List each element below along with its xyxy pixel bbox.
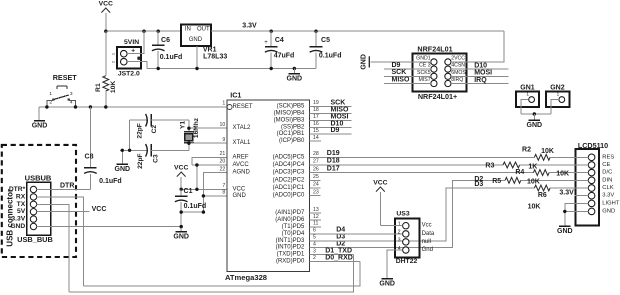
svg-text:DHT22: DHT22	[396, 258, 418, 265]
wire USB GND to C1 ground	[37, 226, 182, 228]
ground (C1)	[173, 225, 189, 241]
svg-text:CLK: CLK	[602, 185, 613, 191]
svg-text:10: 10	[220, 122, 226, 128]
node 3.3V junctions	[270, 30, 318, 33]
svg-text:22pF: 22pF	[137, 154, 144, 169]
svg-text:SCK5: SCK5	[417, 70, 431, 76]
svg-text:10K: 10K	[527, 179, 540, 186]
wire GN common gnd	[521, 112, 551, 120]
wire NRF VCC to 3.3V	[451, 31, 504, 62]
svg-text:ATmega328: ATmega328	[225, 273, 267, 282]
svg-text:0.1uFd: 0.1uFd	[99, 178, 122, 185]
svg-text:1: 1	[526, 92, 529, 97]
svg-text:21: 21	[220, 151, 226, 157]
svg-text:C2: C2	[151, 125, 158, 134]
svg-text:3.3V: 3.3V	[559, 190, 574, 197]
capacitor C1 0.1uFd	[175, 188, 206, 232]
svg-text:22: 22	[220, 166, 226, 172]
wire regulator ground rail	[147, 68, 316, 70]
svg-text:(ADC4)PC4: (ADC4)PC4	[273, 162, 305, 168]
wire net SCK (NRF)	[384, 69, 431, 76]
svg-text:D1_TXD: D1_TXD	[325, 247, 352, 254]
wire stub pin13	[310, 212, 322, 214]
IC1 right pin names	[273, 104, 305, 265]
wire LCD LIGHT/GND to ground	[563, 203, 588, 225]
wire stub pin14	[310, 140, 322, 142]
svg-text:IN: IN	[185, 26, 191, 32]
svg-text:VCC: VCC	[92, 206, 107, 213]
wire JST pin1 to VCC rail	[127, 31, 144, 54]
wire C2 left rail	[128, 120, 131, 152]
svg-text:VCC: VCC	[99, 1, 113, 8]
wire net 3.3V (LCD)	[559, 190, 588, 197]
svg-text:(ADC0)PC0: (ADC0)PC0	[273, 193, 305, 199]
node VCC/R1 junction	[104, 30, 160, 33]
ground (reset switch)	[32, 107, 48, 130]
svg-text:GND: GND	[10, 223, 25, 230]
svg-text:27: 27	[313, 159, 319, 165]
svg-text:RX: RX	[16, 193, 26, 200]
svg-text:3: 3	[313, 248, 316, 254]
svg-text:MOSI: MOSI	[474, 70, 492, 77]
svg-text:D/C: D/C	[602, 170, 612, 176]
svg-text:3.3V: 3.3V	[11, 216, 25, 223]
svg-text:(T1)PD5: (T1)PD5	[282, 224, 305, 230]
svg-text:(ADC5)PC5: (ADC5)PC5	[273, 154, 305, 160]
wire DTR net	[37, 183, 91, 190]
wire 3.3V rail	[211, 23, 504, 32]
svg-text:GND: GND	[173, 234, 189, 241]
capacitor C2 22pF	[130, 114, 189, 139]
svg-text:13: 13	[313, 207, 319, 213]
svg-text:1K: 1K	[528, 164, 537, 171]
wire VR1 GND to rail	[196, 46, 198, 68]
wire XTAL1	[187, 142, 227, 145]
svg-text:(OC1)PB1: (OC1)PB1	[277, 131, 305, 137]
svg-text:IRQ: IRQ	[474, 77, 487, 84]
node gnd rail junctions	[157, 67, 296, 70]
svg-text:D3: D3	[336, 234, 345, 241]
svg-text:GND: GND	[557, 228, 573, 235]
svg-text:D9: D9	[392, 62, 401, 69]
wire RXD bus return	[83, 262, 360, 287]
svg-text:0.1uFd: 0.1uFd	[160, 54, 183, 61]
svg-text:TX: TX	[17, 201, 26, 208]
wire net MISO (NRF)	[384, 76, 431, 83]
svg-text:19: 19	[313, 100, 319, 106]
svg-text:D0_RXD: D0_RXD	[325, 254, 353, 261]
wire net D10	[310, 120, 352, 127]
svg-text:XTAL1: XTAL1	[233, 140, 252, 146]
svg-text:(TXD)PD1: (TXD)PD1	[277, 252, 305, 258]
svg-text:(MOSI)PB3: (MOSI)PB3	[274, 117, 305, 123]
svg-text:AVCC: AVCC	[233, 162, 250, 168]
wire stub pin25	[310, 179, 321, 181]
svg-text:14: 14	[313, 135, 319, 141]
svg-text:4: 4	[313, 241, 316, 247]
svg-text:18: 18	[313, 107, 319, 113]
svg-text:0.1uFd: 0.1uFd	[319, 53, 342, 60]
svg-text:US3: US3	[396, 210, 409, 217]
svg-text:5: 5	[313, 235, 316, 241]
svg-text:9: 9	[222, 137, 225, 143]
svg-text:C5: C5	[321, 37, 330, 44]
svg-text:23: 23	[313, 189, 319, 195]
svg-text:VCC: VCC	[233, 186, 246, 192]
svg-text:16Mhz: 16Mhz	[193, 117, 200, 138]
svg-text:null: null	[422, 239, 431, 245]
power VCC (DHT22)	[373, 180, 402, 226]
wire stub pin12	[310, 219, 322, 221]
wire net D4	[310, 227, 403, 234]
svg-text:16: 16	[313, 121, 319, 127]
svg-text:VCC: VCC	[373, 180, 387, 187]
wire net IRQ (NRF)	[451, 77, 509, 84]
svg-text:JST2.0: JST2.0	[118, 70, 140, 77]
svg-text:4: 4	[398, 246, 401, 252]
wire GND pin8	[202, 194, 227, 197]
svg-text:AREF: AREF	[233, 154, 249, 160]
svg-text:GND: GND	[115, 166, 131, 173]
svg-text:RES: RES	[602, 154, 614, 160]
resistor R2 10K + wire net D19	[310, 147, 589, 161]
wire net MOSI (NRF)	[451, 70, 509, 77]
wire RX to RXD bus	[37, 197, 84, 286]
svg-text:D19: D19	[327, 150, 340, 157]
svg-text:6MOSI: 6MOSI	[451, 70, 467, 76]
wire net MOSI	[310, 113, 352, 120]
svg-text:(MISO)PB4: (MISO)PB4	[274, 110, 305, 116]
svg-text:GN2: GN2	[550, 84, 565, 91]
svg-text:0.1uFd: 0.1uFd	[184, 203, 207, 210]
ground (DHT22)	[379, 279, 395, 288]
svg-text:+: +	[264, 40, 268, 46]
svg-text:D9: D9	[331, 127, 340, 134]
wire net D10 (NRF CSN)	[451, 62, 509, 69]
ground (C4/C5 rail)	[287, 69, 303, 83]
IC1 right pin numbers	[313, 100, 319, 261]
svg-text:R2: R2	[522, 147, 531, 154]
wire NRF GND pin1	[371, 61, 431, 63]
svg-text:2VCC: 2VCC	[451, 55, 465, 61]
svg-text:24: 24	[313, 182, 319, 188]
wire VCC to pin7	[180, 188, 228, 191]
svg-text:Data: Data	[422, 231, 435, 237]
svg-text:R5: R5	[492, 178, 501, 185]
svg-text:(ADC1)PC1: (ADC1)PC1	[273, 185, 305, 191]
svg-text:26: 26	[313, 166, 319, 172]
svg-text:GND: GND	[233, 193, 247, 199]
svg-text:VCC: VCC	[174, 165, 188, 172]
svg-text:22pF: 22pF	[137, 123, 144, 138]
IC1 left pin names	[220, 101, 253, 199]
svg-text:D17: D17	[327, 165, 340, 172]
connector GN1	[516, 84, 539, 114]
pin circle RESET (pin 1)	[227, 105, 232, 110]
svg-text:Y1: Y1	[180, 121, 187, 129]
svg-text:2: 2	[398, 230, 401, 236]
svg-text:C6: C6	[161, 37, 170, 44]
capacitor C5 0.1uFd	[310, 31, 342, 68]
svg-text:15: 15	[313, 128, 319, 134]
connector USB_BUB USBUB	[9, 173, 53, 244]
svg-text:C8: C8	[85, 154, 94, 161]
svg-text:CE: CE	[602, 162, 610, 168]
svg-text:RESET: RESET	[53, 73, 78, 82]
svg-text:GND: GND	[602, 208, 615, 214]
svg-text:5V: 5V	[17, 208, 26, 215]
svg-text:Vcc: Vcc	[422, 223, 432, 229]
wire net MISO	[310, 106, 352, 113]
resistor R5 10K + wire net D2	[310, 176, 589, 248]
svg-text:GN1: GN1	[520, 84, 535, 91]
svg-text:MIS7: MIS7	[418, 77, 430, 83]
svg-text:(ICP)PB0: (ICP)PB0	[279, 138, 305, 144]
wire net D1_TXD	[310, 247, 354, 254]
wire TX to TXD bus	[37, 204, 69, 292]
capacitor C8 0.1uFd	[84, 107, 122, 190]
svg-text:3.3V: 3.3V	[242, 23, 257, 30]
svg-text:GND: GND	[360, 54, 367, 70]
svg-text:MOSI: MOSI	[331, 113, 349, 120]
svg-text:12: 12	[313, 214, 319, 220]
wire net D9 (NRF CE)	[384, 62, 431, 69]
wire net D9	[310, 127, 352, 134]
wire net SCK	[310, 99, 352, 106]
svg-text:(ADC3)PC3: (ADC3)PC3	[273, 170, 305, 176]
svg-text:3.3V: 3.3V	[602, 193, 614, 199]
svg-text:8: 8	[222, 190, 225, 196]
svg-text:USBUB: USBUB	[25, 173, 52, 182]
svg-text:7: 7	[222, 183, 225, 189]
svg-text:GND: GND	[379, 281, 395, 288]
svg-text:28: 28	[313, 151, 319, 157]
svg-text:1: 1	[49, 91, 52, 97]
ground (GN1/GN2)	[527, 120, 543, 129]
svg-text:IC1: IC1	[230, 91, 241, 100]
wire AREF tie	[192, 157, 227, 165]
svg-text:AGND: AGND	[233, 170, 251, 176]
capacitor C6 0.1uFd	[152, 31, 182, 68]
ground (xtal caps)	[115, 149, 131, 173]
svg-text:(ADC2)PC2: (ADC2)PC2	[273, 177, 305, 183]
svg-text:C3: C3	[153, 154, 160, 163]
resistor R6 10K + wire net D3	[310, 181, 589, 241]
svg-text:(AIN0)PD6: (AIN0)PD6	[275, 217, 305, 223]
svg-text:10K: 10K	[556, 170, 569, 177]
capacitor C3 22pF	[120, 144, 189, 169]
wire AGND/GND return	[180, 210, 206, 213]
svg-text:10K: 10K	[110, 81, 117, 94]
svg-text:D4: D4	[336, 227, 345, 234]
svg-text:XTAL2: XTAL2	[233, 125, 252, 131]
wire stub pin23	[310, 195, 321, 197]
svg-text:D18: D18	[327, 158, 340, 165]
svg-text:C1: C1	[184, 188, 193, 195]
connector LCD5110	[576, 141, 620, 225]
wire net D0_RXD	[310, 254, 360, 261]
wire AVCC	[192, 163, 227, 189]
module U2 NRF24L01	[413, 44, 468, 101]
capacitor C4 47uFd	[264, 31, 294, 68]
svg-text:NRF24L01+: NRF24L01+	[418, 92, 457, 101]
svg-text:5VIN: 5VIN	[124, 39, 139, 46]
power VCC (top supply)	[99, 1, 113, 32]
wire TXD bus return	[69, 255, 354, 292]
switch S1 RESET	[47, 73, 77, 107]
power VCC (near IC)	[174, 165, 188, 190]
svg-text:(SCK)PB5: (SCK)PB5	[277, 104, 305, 110]
svg-text:1: 1	[222, 101, 225, 107]
connector GN2	[546, 84, 569, 114]
svg-text:25: 25	[313, 174, 319, 180]
svg-text:(RXD)PD0: (RXD)PD0	[276, 259, 305, 265]
wire stub pin24	[310, 187, 321, 189]
svg-text:USB_BUB: USB_BUB	[17, 235, 53, 244]
node reset junctions	[45, 105, 107, 108]
svg-text:SCK: SCK	[392, 69, 407, 76]
svg-text:(INT1)PD3: (INT1)PD3	[276, 238, 305, 244]
ground (NRF rotated)	[360, 54, 369, 70]
svg-text:R1: R1	[95, 83, 102, 92]
wire VCC rail (top)	[106, 30, 181, 32]
svg-text:D10: D10	[474, 62, 487, 69]
svg-text:GND: GND	[189, 37, 203, 43]
resistor R1 10K	[95, 31, 117, 107]
crystal Y1 16Mhz	[180, 117, 200, 150]
svg-text:GND: GND	[527, 122, 543, 129]
svg-text:MISO: MISO	[331, 106, 349, 113]
wire JST pin2 to gnd rail	[127, 62, 147, 69]
svg-text:DIN: DIN	[602, 177, 612, 183]
svg-text:DTR*: DTR*	[9, 186, 26, 193]
svg-text:C4: C4	[275, 37, 284, 44]
svg-text:10K: 10K	[541, 148, 554, 155]
svg-text:8IRQ: 8IRQ	[451, 77, 463, 83]
svg-text:(SS)PB2: (SS)PB2	[281, 124, 305, 130]
svg-text:47uFd: 47uFd	[274, 53, 295, 60]
regulator VR1 L78L33	[181, 24, 227, 60]
svg-text:OUT: OUT	[197, 26, 210, 32]
svg-text:6: 6	[313, 228, 316, 234]
svg-text:4CSN: 4CSN	[451, 63, 465, 69]
svg-text:D3: D3	[474, 181, 483, 188]
svg-text:17: 17	[313, 114, 319, 120]
svg-text:11: 11	[313, 221, 318, 227]
svg-text:DTR: DTR	[60, 183, 74, 190]
svg-text:(INT0)PD2: (INT0)PD2	[276, 245, 305, 251]
svg-text:CE 3: CE 3	[419, 63, 431, 69]
svg-text:(AIN1)PD7: (AIN1)PD7	[275, 210, 305, 216]
svg-text:GND: GND	[32, 123, 48, 130]
wire 5V / net VCC	[37, 206, 107, 213]
wire XTAL2	[187, 127, 227, 130]
svg-text:R4: R4	[515, 169, 524, 176]
svg-text:GND: GND	[287, 76, 303, 83]
resistor R3 1K + wire net D18	[310, 158, 589, 171]
svg-text:3: 3	[70, 91, 73, 97]
svg-text:R3: R3	[485, 163, 494, 170]
svg-text:(T0)PD4: (T0)PD4	[282, 231, 305, 237]
svg-text:10K: 10K	[528, 204, 541, 211]
svg-text:RESET: RESET	[233, 104, 253, 110]
svg-text:R6: R6	[538, 192, 547, 199]
wire RESET net	[39, 106, 227, 108]
connector JST2.0 5VIN	[111, 39, 141, 77]
ground (LCD)	[557, 226, 573, 235]
svg-text:1: 1	[557, 92, 560, 97]
sensor US3 DHT22	[395, 210, 435, 265]
svg-text:L78L33: L78L33	[203, 53, 227, 60]
svg-text:1: 1	[398, 222, 401, 228]
label USB connector (rotated)	[6, 189, 15, 247]
svg-text:GND1: GND1	[416, 55, 431, 61]
svg-text:20: 20	[220, 159, 226, 165]
svg-text:Gnd: Gnd	[422, 247, 433, 253]
wire stub pin11	[310, 226, 322, 228]
wire AGND	[203, 173, 227, 212]
resistor R4 10K + wire net D17	[310, 165, 589, 177]
svg-text:2: 2	[313, 255, 316, 261]
svg-text:3: 3	[398, 238, 401, 244]
svg-text:LIGHT: LIGHT	[602, 200, 620, 206]
wire DHT gnd	[387, 250, 402, 278]
svg-text:MISO: MISO	[392, 76, 410, 83]
USB connector outline (dashed)	[2, 145, 76, 257]
op IC1 ATmega328 box	[225, 91, 310, 282]
svg-text:NRF24L01: NRF24L01	[417, 44, 452, 53]
